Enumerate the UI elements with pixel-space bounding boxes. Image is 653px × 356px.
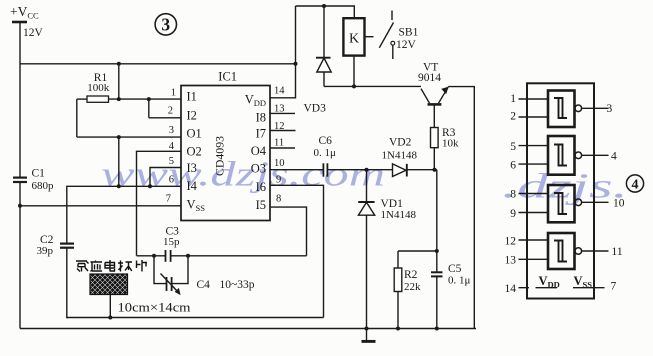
wire: pin8 stub right then down to C3 wire	[270, 207, 307, 256]
wire: sense wire y=317.5 to pin9 vertical	[67, 317, 324, 319]
svg-text:12V: 12V	[396, 39, 417, 51]
gate G4 (pins 12,13 -> 11)	[519, 233, 609, 269]
node: R2 / ground bus	[396, 327, 400, 331]
circled number 4	[626, 175, 643, 193]
node: top wire / VD3 branch	[322, 4, 326, 8]
IC package outer box	[527, 83, 594, 298]
wire: R1 left lead to corner	[77, 98, 87, 100]
wire: I4 (pin6) horizontal to C2 corner	[67, 186, 181, 243]
wire: R2 top wire y=251	[398, 250, 437, 252]
svg-text:SB1: SB1	[399, 27, 419, 39]
svg-text:12: 12	[274, 121, 285, 132]
capacitor C2 plates	[60, 244, 74, 248]
label C4 10~33p	[197, 279, 255, 291]
trimmer arrow through C4	[161, 274, 181, 296]
svg-text:2: 2	[510, 111, 516, 123]
svg-text:5: 5	[169, 156, 174, 167]
svg-text:13: 13	[274, 104, 285, 115]
label IC1	[218, 70, 237, 84]
svg-text:O2: O2	[187, 145, 202, 159]
svg-text:I5: I5	[256, 198, 266, 212]
label VT / 9014	[418, 62, 441, 85]
wire: C2 bottom down to electrode wire	[67, 248, 68, 318]
node: C3 left / C4 branch	[152, 254, 156, 258]
svg-text:10: 10	[613, 198, 625, 210]
wire: C4 parallel loop	[154, 256, 188, 284]
label R1	[94, 72, 108, 84]
svg-text:8: 8	[276, 194, 281, 205]
svg-text:0. 1μ: 0. 1μ	[314, 147, 337, 159]
label 12V supply	[23, 27, 44, 39]
svg-text:2: 2	[168, 106, 173, 117]
node: C3 right / C4 branch	[186, 254, 190, 258]
node: VD1 / ground bus	[365, 327, 369, 331]
label C3 / 15p	[163, 225, 180, 248]
svg-text:CD4093: CD4093	[213, 136, 227, 176]
wire: left rail x=20 from Vcc bar to C1 top	[19, 22, 21, 177]
wire: ground bus y=328.5	[20, 328, 476, 330]
svg-text:10cm×14cm: 10cm×14cm	[118, 301, 191, 315]
label K	[349, 32, 359, 47]
label C5 / 0.1u	[448, 263, 471, 287]
svg-text:4: 4	[169, 141, 175, 152]
svg-text:15p: 15p	[163, 236, 180, 248]
capacitor C3 plates	[166, 250, 171, 262]
wire: I3 (pin5) lead and tie down to I4 wire	[150, 168, 181, 187]
label 10cm x 14cm	[118, 301, 191, 315]
op-amp/IC U1 body: CD4093 IC1 box	[181, 86, 270, 221]
svg-text:I2: I2	[187, 109, 197, 123]
svg-text:I4: I4	[187, 179, 198, 193]
svg-text:39p: 39p	[37, 245, 54, 257]
node: electrode / sense wire	[108, 316, 112, 320]
svg-text:3: 3	[161, 15, 170, 35]
svg-text:12V: 12V	[23, 27, 44, 39]
node: I4 wire / O1 vertical	[117, 184, 121, 188]
label CD4093 (rotated)	[213, 136, 227, 176]
wire: Vcc horizontal rail y=63.8	[20, 63, 296, 65]
svg-text:I8: I8	[256, 111, 266, 125]
svg-text:10: 10	[274, 158, 285, 169]
wire: vertical from rail down to R1 output node	[118, 64, 120, 99]
svg-text:5: 5	[510, 141, 516, 153]
svg-text:IC1: IC1	[218, 70, 237, 84]
+Vcc supply terminal bar	[12, 21, 27, 24]
label 100k	[87, 82, 110, 94]
package Vss label	[574, 274, 593, 290]
svg-text:K: K	[349, 32, 359, 47]
wire: emitter to right and down to ground	[448, 87, 474, 329]
svg-text:R2: R2	[404, 269, 418, 281]
resistor R3 body	[431, 128, 439, 148]
svg-text:I3: I3	[187, 161, 197, 175]
wire: VD3/K to transistor collector wire y=86.4	[324, 85, 421, 87]
switch SB1	[366, 11, 395, 60]
capacitor C5 plates	[431, 272, 443, 276]
svg-text:I1: I1	[187, 90, 197, 104]
label R3 / 10k	[442, 127, 459, 150]
wire: R2 bottom lead	[397, 292, 399, 329]
svg-text:C5: C5	[448, 263, 462, 275]
label C6 / 0.1u	[314, 135, 337, 159]
svg-text:6: 6	[510, 159, 516, 171]
label sensor electrode (Chinese)	[76, 260, 147, 272]
wire: left rail x=20 from C1 bottom to ground wire	[19, 183, 21, 329]
node: left rail / Vss wire junction	[18, 204, 22, 208]
package Vdd label	[539, 274, 560, 290]
svg-text:9: 9	[510, 208, 516, 220]
diode VD2 (pointing right)	[393, 164, 407, 177]
svg-text:11: 11	[612, 246, 623, 258]
svg-text:13: 13	[505, 255, 517, 267]
svg-text:O1: O1	[187, 127, 202, 141]
svg-text:I7: I7	[256, 127, 266, 141]
svg-text:.dzjs.: .dzjs.	[502, 168, 628, 206]
resistor R1 body	[87, 96, 109, 102]
svg-text:680p: 680p	[32, 180, 55, 192]
gate G2 (pins 5,6 -> 4)	[519, 136, 609, 175]
svg-text:7: 7	[611, 281, 617, 293]
svg-text:4: 4	[611, 151, 617, 163]
label VD2 / 1N4148	[382, 137, 418, 162]
package pin numbers left	[505, 93, 517, 295]
wire: O2 (pin4) lead and long vertical down to C3 wire	[137, 151, 182, 256]
svg-text:8: 8	[510, 189, 516, 201]
svg-text:7: 7	[166, 194, 171, 205]
relay coil K box	[343, 18, 364, 55]
svg-text:1: 1	[510, 93, 516, 105]
svg-text:VD3: VD3	[304, 103, 327, 115]
wire: pin12 stub	[270, 130, 296, 132]
wire: R2 top lead	[397, 251, 399, 268]
svg-text:10~33p: 10~33p	[220, 279, 255, 291]
svg-text:1N4148: 1N4148	[382, 150, 418, 162]
svg-text:14: 14	[274, 86, 285, 97]
transistor Q1 (VT 9014)	[421, 87, 449, 128]
wire: C3 oscillator wire y=255.8	[137, 255, 307, 257]
diode VD1 (cathode up)	[358, 170, 375, 329]
label SB1 / 12V	[396, 27, 419, 52]
label C1 / 680p	[32, 168, 55, 193]
resistor R2 body	[394, 268, 402, 292]
package pin numbers right	[607, 103, 625, 293]
node: R3 / detector node	[433, 168, 437, 172]
capacitor C1 plates	[13, 178, 27, 182]
wire: pin10 output wire y=169.7	[270, 169, 437, 171]
svg-text:C1: C1	[32, 168, 46, 180]
wire: package pin 14 lead and Vdd underline	[519, 287, 558, 289]
label R2 / 22k	[404, 269, 421, 293]
wire: electrode lead down	[109, 295, 111, 318]
svg-text:4: 4	[632, 178, 639, 193]
svg-text:O3: O3	[251, 162, 266, 176]
svg-text:1N4148: 1N4148	[381, 209, 417, 221]
svg-text:O4: O4	[251, 144, 267, 158]
node: R1 right node	[117, 97, 121, 101]
label +Vcc	[10, 4, 39, 21]
node: K bottom / base wire	[352, 84, 356, 88]
svg-text:C6: C6	[319, 135, 333, 147]
label VD3	[304, 103, 327, 115]
wire: O1 feedback vertical down to I4 wire	[118, 137, 120, 186]
capacitor C4 plates (trimmer)	[167, 277, 172, 291]
IC inner pin labels right	[245, 93, 267, 213]
svg-text:10k: 10k	[442, 138, 459, 150]
sensor electrode plate (hatched)	[90, 274, 128, 295]
svg-text:3: 3	[169, 125, 174, 136]
svg-text:100k: 100k	[87, 82, 110, 94]
svg-text:3: 3	[607, 103, 613, 115]
gate G1 (pins 1,2 -> 3)	[519, 91, 609, 128]
label C2 / 39p	[37, 234, 54, 257]
IC inner pin labels left	[187, 90, 206, 214]
node: C5 / R2 top wire	[435, 249, 439, 253]
svg-text:9014: 9014	[418, 72, 441, 84]
node: pin1/pin2 tie	[147, 97, 151, 101]
wire: pin9 stub right then down to sense wire	[270, 185, 324, 317]
wire: pin13 stub	[270, 112, 295, 114]
ground symbol	[362, 329, 376, 342]
svg-text:1: 1	[171, 88, 176, 99]
IC package pinout diagram (4)	[519, 83, 609, 298]
svg-text:22k: 22k	[404, 281, 421, 293]
circled number 3	[155, 14, 176, 35]
node: rail meets pin14 vertical	[294, 62, 298, 66]
wire: tie vertical pin1 to pin2	[149, 99, 181, 118]
wire: top wire y=6	[296, 6, 355, 18]
wire: pin14 stub and vertical up to top wire	[270, 6, 296, 98]
node: rail / R1 branch	[117, 62, 121, 66]
wire: C5 vertical line	[436, 170, 438, 329]
label VD1 / 1N4148	[381, 198, 417, 221]
wire: O1 (pin3) horizontal	[77, 136, 181, 138]
capacitor C6 plates	[323, 163, 327, 176]
node: pin5/pin6 tie	[148, 184, 152, 188]
svg-text:14: 14	[505, 283, 517, 295]
svg-text:9: 9	[276, 175, 281, 186]
watermark www.dzjs.com	[101, 156, 628, 206]
wire: package pin 7 lead and Vss underline	[573, 287, 605, 289]
gate G3 (pins 8,9 -> 10)	[519, 185, 609, 222]
wire: pin11 stub	[270, 147, 295, 149]
svg-text:VD2: VD2	[389, 137, 412, 149]
IC pin numbers left	[166, 88, 176, 205]
svg-text:0. 1μ: 0. 1μ	[448, 275, 471, 287]
IC pin numbers right	[274, 86, 285, 205]
svg-text:6: 6	[169, 175, 174, 186]
wire: R1 left vertical down to O1 wire	[76, 99, 78, 137]
svg-text:www.dzjs.com: www.dzjs.com	[101, 156, 385, 194]
wire: Vss (pin7) horizontal to left rail	[20, 205, 181, 207]
svg-text:11: 11	[274, 138, 284, 149]
node: O1 wire / feedback vertical	[117, 135, 121, 139]
wire: R3 bottom lead	[433, 148, 435, 170]
node: VD1 tap on pin10 wire	[365, 168, 369, 172]
svg-text:I6: I6	[256, 180, 266, 194]
node: C5 / ground bus	[435, 327, 439, 331]
svg-text:12: 12	[505, 235, 517, 247]
wire: K bottom lead	[353, 56, 355, 87]
diode VD3 (cathode up)	[316, 6, 331, 86]
svg-text:C4: C4	[197, 279, 211, 291]
wire: R1 right lead toward IC pin 1	[109, 98, 182, 100]
